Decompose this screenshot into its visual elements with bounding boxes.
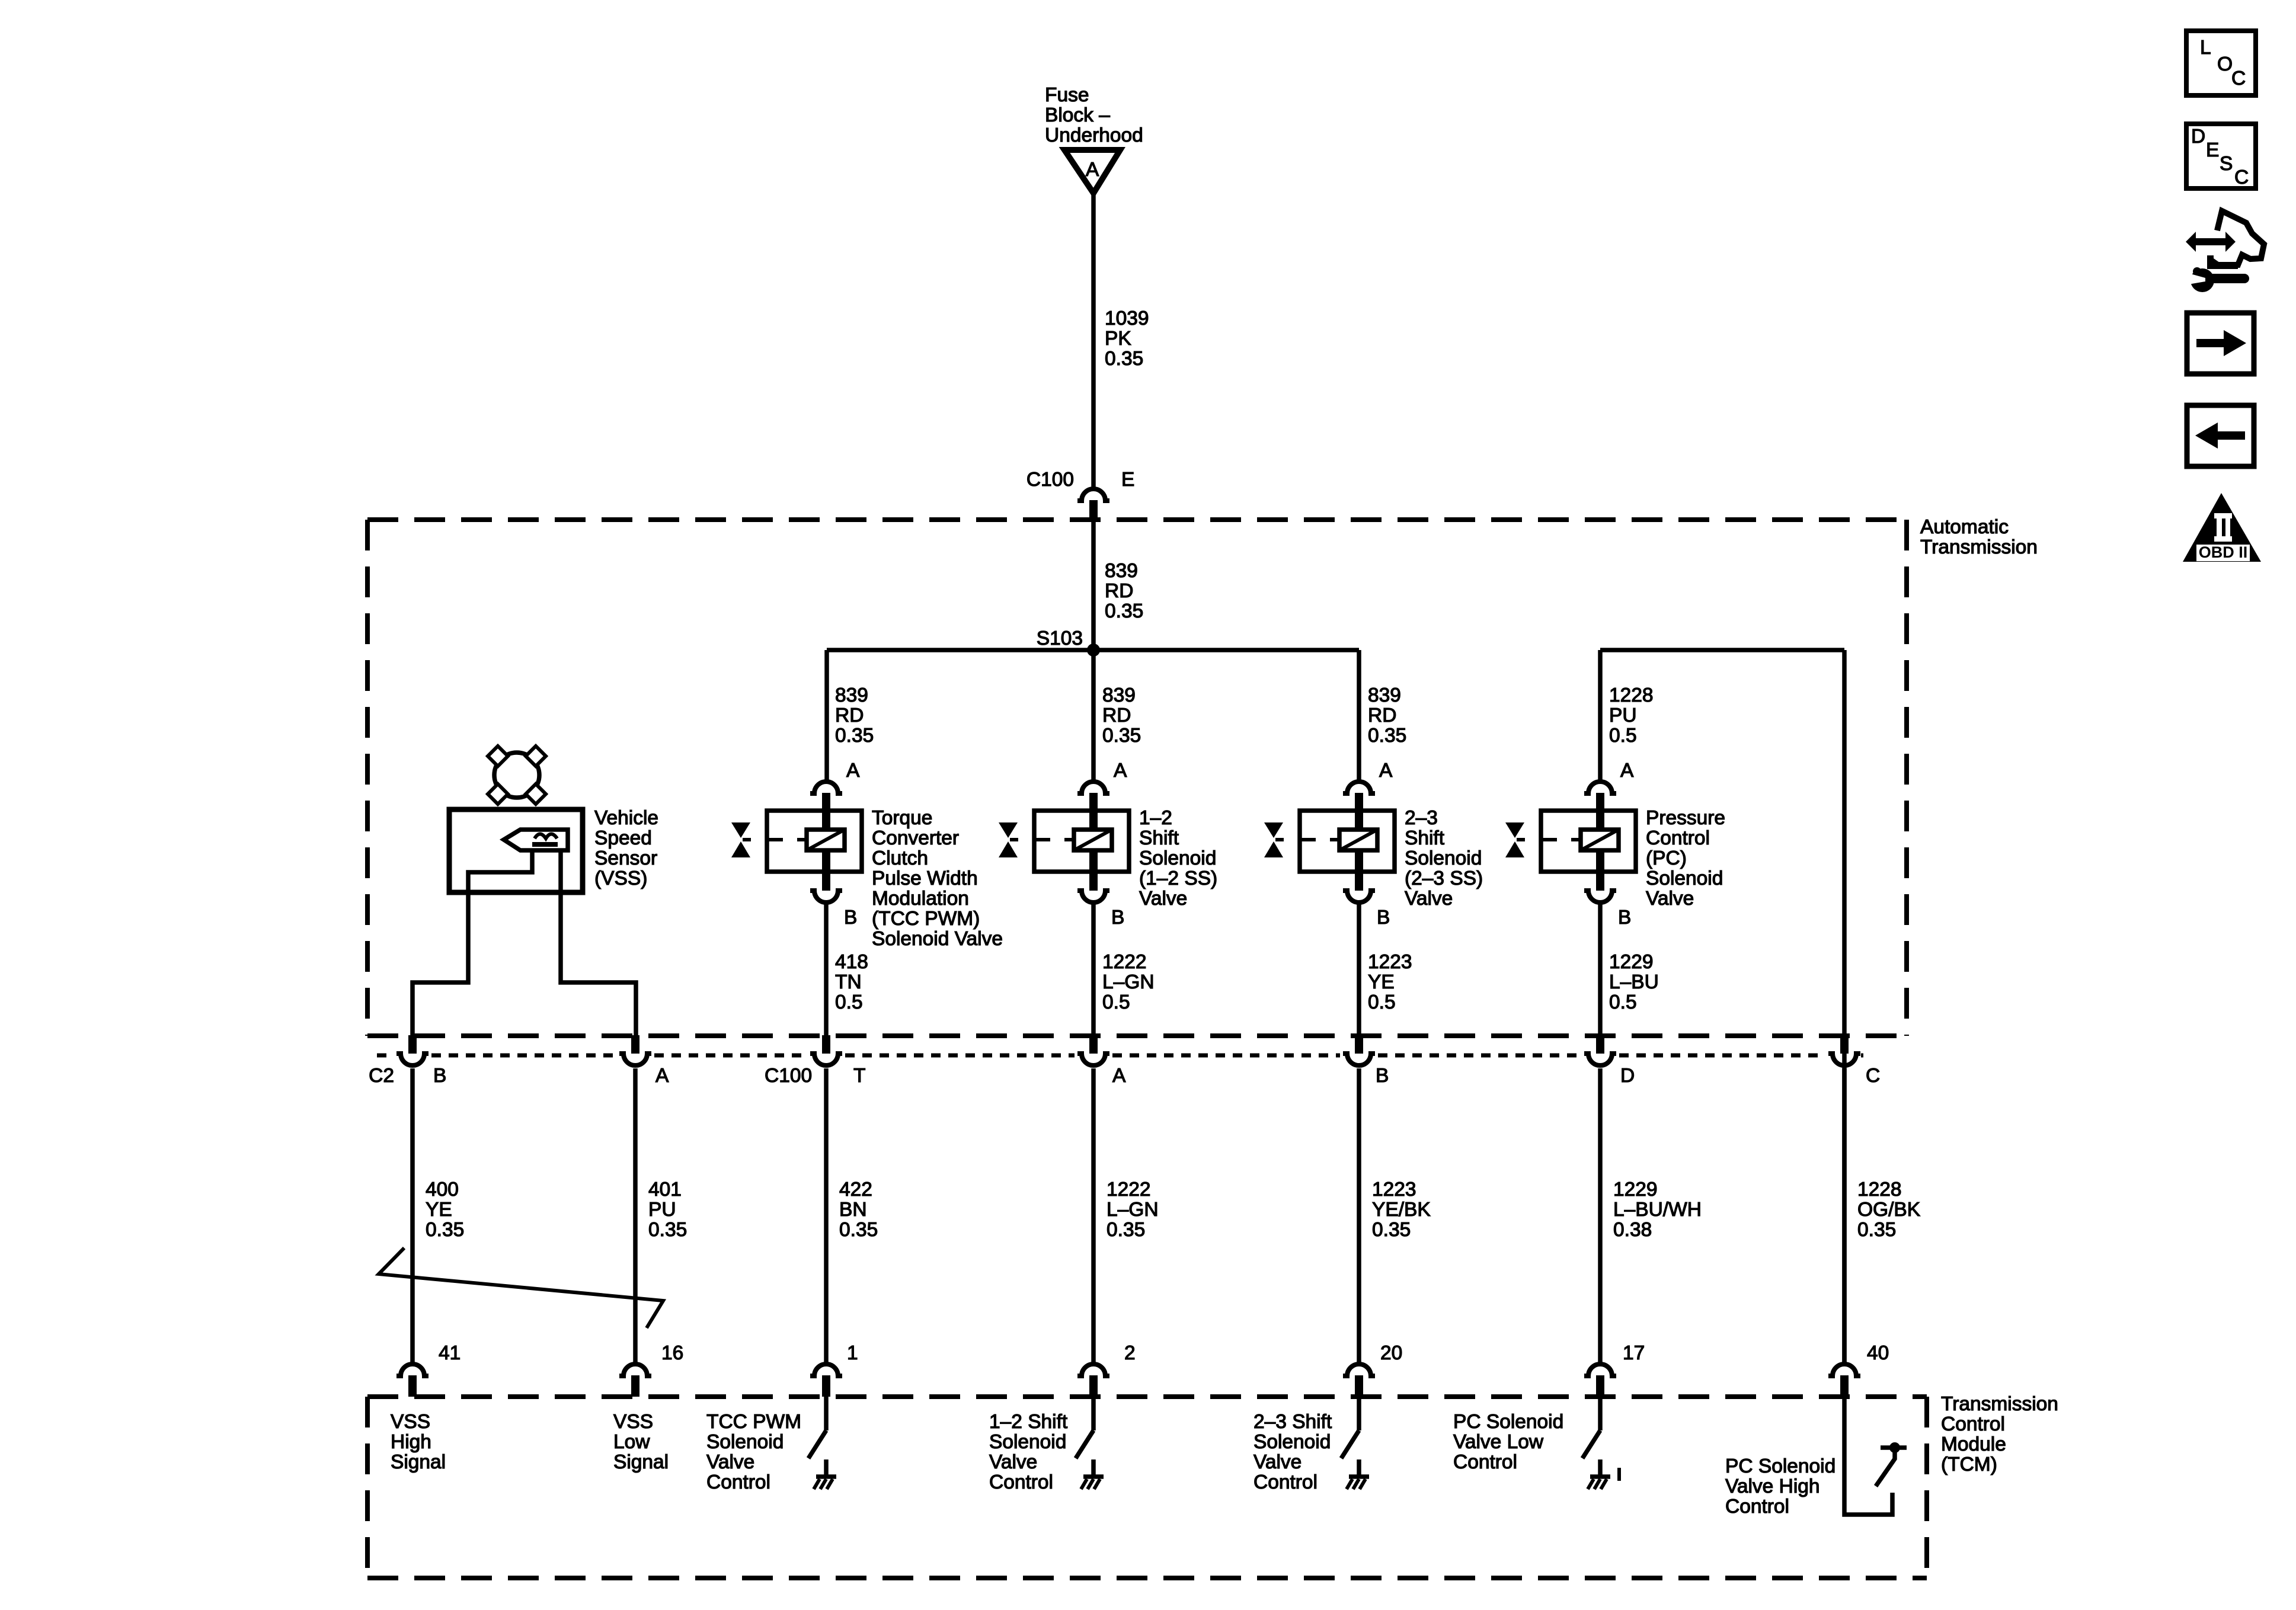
svg-text:A: A (846, 760, 860, 782)
svg-text:Module: Module (1941, 1433, 2006, 1455)
svg-text:Signal: Signal (391, 1451, 446, 1473)
svg-text:Underhood: Underhood (1045, 124, 1143, 146)
svg-text:Solenoid: Solenoid (1253, 1431, 1331, 1453)
svg-text:RD: RD (1102, 705, 1131, 726)
svg-text:TCC PWM: TCC PWM (706, 1411, 801, 1433)
svg-text:A: A (1114, 760, 1127, 782)
svg-text:Solenoid: Solenoid (1139, 847, 1216, 869)
svg-text:Valve: Valve (989, 1451, 1037, 1473)
svg-text:Solenoid: Solenoid (989, 1431, 1066, 1453)
svg-text:16: 16 (661, 1342, 683, 1364)
svg-text:0.35: 0.35 (839, 1219, 878, 1241)
svg-text:0.35: 0.35 (1857, 1219, 1896, 1241)
svg-text:D: D (1620, 1065, 1635, 1087)
svg-text:B: B (1377, 907, 1390, 929)
svg-text:OBD II: OBD II (2199, 543, 2248, 561)
svg-text:Clutch: Clutch (872, 847, 928, 869)
svg-text:RD: RD (835, 705, 864, 726)
svg-text:418: 418 (835, 951, 868, 973)
svg-text:A: A (655, 1065, 669, 1087)
svg-text:0.35: 0.35 (1368, 725, 1406, 747)
svg-text:Valve: Valve (706, 1451, 754, 1473)
svg-text:B: B (1618, 907, 1631, 929)
svg-text:C: C (2234, 167, 2249, 188)
svg-text:Torque: Torque (872, 807, 932, 829)
svg-text:PC Solenoid: PC Solenoid (1453, 1411, 1563, 1433)
svg-text:Signal: Signal (613, 1451, 669, 1473)
svg-text:0.38: 0.38 (1613, 1219, 1652, 1241)
svg-text:Solenoid: Solenoid (1646, 868, 1723, 889)
svg-text:422: 422 (839, 1179, 872, 1201)
svg-text:2–3: 2–3 (1405, 807, 1438, 829)
svg-text:B: B (1111, 907, 1124, 929)
svg-text:Solenoid Valve: Solenoid Valve (872, 928, 1003, 950)
svg-text:Valve: Valve (1139, 888, 1187, 910)
svg-text:RD: RD (1105, 580, 1133, 602)
svg-text:1223: 1223 (1372, 1179, 1416, 1201)
svg-text:A: A (1086, 159, 1099, 181)
svg-text:B: B (433, 1065, 446, 1087)
svg-text:Control: Control (1453, 1451, 1517, 1473)
svg-text:D: D (2191, 126, 2205, 148)
svg-text:0.35: 0.35 (1105, 348, 1143, 370)
svg-text:1228: 1228 (1609, 684, 1654, 706)
svg-text:1229: 1229 (1613, 1179, 1658, 1201)
svg-text:Modulation: Modulation (872, 888, 969, 910)
svg-text:(TCM): (TCM) (1941, 1454, 1997, 1475)
svg-text:S: S (2220, 153, 2233, 175)
svg-text:PU: PU (648, 1199, 676, 1221)
svg-text:Converter: Converter (872, 827, 959, 849)
svg-text:Shift: Shift (1139, 827, 1179, 849)
svg-text:Automatic: Automatic (1920, 516, 2009, 538)
svg-text:17: 17 (1623, 1342, 1645, 1364)
svg-text:0.35: 0.35 (426, 1219, 464, 1241)
svg-text:0.35: 0.35 (1105, 600, 1143, 622)
svg-text:A: A (1379, 760, 1393, 782)
svg-text:1223: 1223 (1368, 951, 1412, 973)
svg-text:Valve: Valve (1405, 888, 1453, 910)
svg-text:(2–3 SS): (2–3 SS) (1405, 868, 1483, 889)
svg-text:1–2: 1–2 (1139, 807, 1172, 829)
svg-text:PU: PU (1609, 705, 1637, 726)
svg-text:PC Solenoid: PC Solenoid (1725, 1455, 1835, 1477)
svg-text:839: 839 (1368, 684, 1401, 706)
svg-text:(VSS): (VSS) (594, 868, 647, 889)
svg-text:1222: 1222 (1102, 951, 1147, 973)
svg-text:0.5: 0.5 (835, 991, 863, 1013)
svg-text:High: High (391, 1431, 431, 1453)
svg-text:O: O (2217, 53, 2233, 75)
svg-text:0.5: 0.5 (1609, 991, 1637, 1013)
svg-text:1–2 Shift: 1–2 Shift (989, 1411, 1068, 1433)
svg-text:Shift: Shift (1405, 827, 1445, 849)
svg-text:YE: YE (1368, 971, 1395, 993)
svg-text:0.5: 0.5 (1609, 725, 1637, 747)
svg-text:839: 839 (1105, 560, 1138, 582)
svg-text:41: 41 (439, 1342, 461, 1364)
svg-text:1228: 1228 (1857, 1179, 1902, 1201)
svg-text:B: B (844, 907, 857, 929)
svg-text:Block –: Block – (1045, 104, 1110, 126)
svg-text:40: 40 (1867, 1342, 1889, 1364)
svg-text:Control: Control (989, 1471, 1053, 1493)
svg-text:0.5: 0.5 (1368, 991, 1396, 1013)
svg-text:C: C (1866, 1065, 1880, 1087)
svg-text:1039: 1039 (1105, 308, 1149, 329)
svg-text:Transmission: Transmission (1920, 536, 2038, 558)
svg-text:Fuse: Fuse (1045, 84, 1089, 106)
svg-text:L–GN: L–GN (1107, 1199, 1159, 1221)
svg-text:BN: BN (839, 1199, 867, 1221)
svg-text:0.35: 0.35 (1107, 1219, 1145, 1241)
svg-text:0.35: 0.35 (835, 725, 874, 747)
svg-text:RD: RD (1368, 705, 1396, 726)
svg-text:1222: 1222 (1107, 1179, 1151, 1201)
svg-text:C: C (2231, 68, 2246, 89)
svg-text:0.35: 0.35 (1372, 1219, 1411, 1241)
svg-text:0.35: 0.35 (648, 1219, 687, 1241)
svg-text:Pulse Width: Pulse Width (872, 868, 978, 889)
svg-text:YE/BK: YE/BK (1372, 1199, 1431, 1221)
svg-text:Control: Control (1646, 827, 1710, 849)
svg-text:TN: TN (835, 971, 862, 993)
svg-text:Valve High: Valve High (1725, 1475, 1820, 1497)
svg-text:L–GN: L–GN (1102, 971, 1155, 993)
svg-text:20: 20 (1380, 1342, 1402, 1364)
svg-text:E: E (2206, 139, 2219, 161)
svg-text:(TCC PWM): (TCC PWM) (872, 908, 980, 930)
svg-text:1229: 1229 (1609, 951, 1654, 973)
svg-text:839: 839 (1102, 684, 1136, 706)
svg-text:1: 1 (847, 1342, 858, 1364)
svg-text:Speed: Speed (594, 827, 652, 849)
svg-text:Valve: Valve (1253, 1451, 1302, 1473)
svg-text:B: B (1376, 1065, 1389, 1087)
svg-text:E: E (1121, 469, 1134, 491)
svg-text:Sensor: Sensor (594, 847, 657, 869)
svg-text:C2: C2 (369, 1065, 394, 1087)
svg-text:L–BU/WH: L–BU/WH (1613, 1199, 1702, 1221)
svg-text:(1–2 SS): (1–2 SS) (1139, 868, 1217, 889)
svg-text:Solenoid: Solenoid (1405, 847, 1482, 869)
svg-text:2–3 Shift: 2–3 Shift (1253, 1411, 1332, 1433)
svg-text:Pressure: Pressure (1646, 807, 1725, 829)
svg-text:YE: YE (426, 1199, 452, 1221)
svg-text:C100: C100 (765, 1065, 812, 1087)
svg-text:S103: S103 (1037, 628, 1083, 649)
svg-text:Low: Low (613, 1431, 650, 1453)
svg-text:0.5: 0.5 (1102, 991, 1130, 1013)
svg-text:Valve: Valve (1646, 888, 1694, 910)
svg-text:Vehicle: Vehicle (594, 807, 658, 829)
svg-text:OG/BK: OG/BK (1857, 1199, 1920, 1221)
svg-text:T: T (853, 1065, 865, 1087)
svg-text:A: A (1112, 1065, 1126, 1087)
svg-text:Control: Control (1725, 1496, 1789, 1518)
svg-text:L–BU: L–BU (1609, 971, 1659, 993)
svg-text:0.35: 0.35 (1102, 725, 1141, 747)
svg-text:2: 2 (1124, 1342, 1136, 1364)
svg-text:L: L (2200, 37, 2211, 59)
svg-text:Solenoid: Solenoid (706, 1431, 784, 1453)
svg-text:Control: Control (1253, 1471, 1318, 1493)
svg-text:VSS: VSS (391, 1411, 430, 1433)
svg-text:400: 400 (426, 1179, 459, 1201)
svg-text:(PC): (PC) (1646, 847, 1687, 869)
svg-text:C100: C100 (1027, 469, 1074, 491)
svg-text:Valve Low: Valve Low (1453, 1431, 1544, 1453)
svg-text:VSS: VSS (613, 1411, 653, 1433)
svg-text:401: 401 (648, 1179, 682, 1201)
svg-text:Control: Control (706, 1471, 770, 1493)
svg-text:839: 839 (835, 684, 868, 706)
svg-text:A: A (1620, 760, 1634, 782)
svg-text:Control: Control (1941, 1413, 2005, 1435)
svg-text:Transmission: Transmission (1941, 1393, 2058, 1415)
svg-text:PK: PK (1105, 328, 1131, 350)
